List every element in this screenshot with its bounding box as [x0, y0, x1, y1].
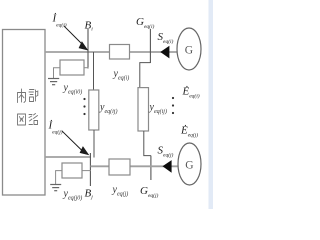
wire: internal network to bus B_j (bottom) — [45, 156, 91, 158]
wire: bus B_j to generator G_eq(j) (bottom) — [90, 165, 178, 167]
generator G (top) — [177, 28, 201, 70]
power flow arrow S_eq(i) — [160, 46, 169, 59]
dots: more generator branches (right) — [172, 97, 174, 114]
wire: shunt box to bus B_i — [84, 67, 89, 69]
wire: shunt box to ground (top) — [54, 68, 61, 78]
series box y_eq(i) (bus to generator node) — [110, 45, 130, 60]
wire: shunt box to bus B_j — [82, 170, 91, 172]
bus B_i — [87, 29, 89, 69]
shunt admittance box y_eq(i0) — [60, 60, 84, 75]
series admittance box y_eq(ij) (right, between generator nodes) — [138, 88, 149, 131]
wire: node G_eq(i) to y_eq(ij) right — [140, 63, 151, 88]
generator G (bottom) — [178, 143, 201, 185]
series box y_eq(j) (bus to generator node) — [109, 159, 130, 175]
wire: y_eq(ij) left to bus B_j — [93, 130, 95, 158]
dots: more boundary branches (left) — [83, 98, 85, 115]
node G_eq(i) — [149, 29, 151, 63]
wire: bus B_i to generator G_eq(i) (top) — [45, 51, 178, 53]
current injection arrow I_eq(j) — [62, 131, 90, 156]
wire: bus B_i down to series branch y_eq(ij) — [93, 52, 95, 90]
ground (bottom) — [50, 185, 61, 191]
bus B_j — [89, 153, 91, 186]
power flow arrow S_eq(j) — [163, 160, 172, 173]
series admittance box y_eq(ij) (left, between buses) — [89, 90, 99, 130]
ground (top) — [48, 79, 59, 85]
svg-text:G: G — [185, 45, 193, 57]
node G_eq(j) — [150, 156, 152, 180]
wire: shunt box to ground (bottom) — [56, 171, 62, 184]
current injection arrow I_eq(i) — [64, 26, 89, 51]
wire: y_eq(ij) right to node G_eq(j) — [144, 131, 151, 156]
shunt admittance box y_eq(j0) — [62, 163, 82, 178]
label 内部网络 — [18, 89, 38, 125]
svg-text:G: G — [185, 160, 193, 172]
internal network box — [3, 30, 46, 196]
